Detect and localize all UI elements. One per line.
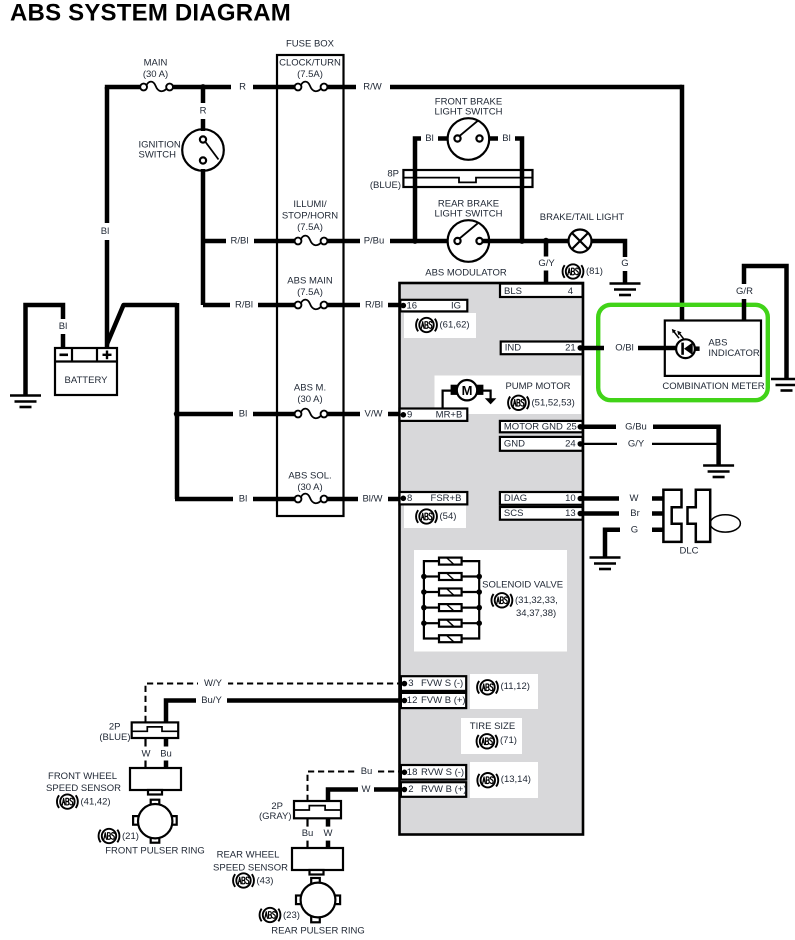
white patch IG annotation [404,313,476,338]
wire G/Bu motor gnd [583,427,719,465]
label gap G/Bu [616,420,653,434]
label G brake ground [618,257,632,271]
wire ignition switch lower to rows B and C [201,169,206,305]
svg-text:R/Bl: R/Bl [235,300,253,311]
ground battery [10,396,41,408]
svg-text:G/Y: G/Y [538,258,555,269]
svg-text:4: 4 [568,286,573,297]
svg-text:O/Bl: O/Bl [615,343,633,354]
svg-text:Bu/Y: Bu/Y [201,695,222,706]
pump motor [443,391,451,409]
rear wheel speed sensor box [292,848,343,870]
svg-text:GND: GND [504,438,525,449]
ABS icon (51,52,53) [508,396,529,410]
svg-text:RVW S (-): RVW S (-) [421,767,464,778]
junction dot BLS top [543,281,549,287]
pin box 9 MR+B [400,409,468,421]
pin box DIAG 10 [500,492,583,505]
wire battery feeder diagonal [107,305,177,344]
svg-text:(7.5A): (7.5A) [297,287,323,298]
junction dot row A / ignition [200,84,206,90]
svg-text:P/Bu: P/Bu [364,236,385,247]
wire rear switch output to lamp and ground [483,239,569,244]
ABS icon (31,32,33, 34,37,38) [491,593,512,607]
svg-text:FRONT WHEEL: FRONT WHEEL [48,771,117,782]
wire Bu dashed rear [308,772,401,802]
svg-text:Bl: Bl [101,226,109,237]
svg-text:LIGHT SWITCH: LIGHT SWITCH [435,208,503,219]
wire row E (Bl / Bl/W, y=499) [175,497,401,502]
pin box 3 FVW S (-) [401,676,466,691]
ABS icon (21) [99,829,120,843]
ground below G [590,558,621,570]
wire G from DLC to ground [605,530,663,557]
svg-text:W: W [630,493,639,504]
svg-text:(BLUE): (BLUE) [370,180,401,191]
wire Br to DLC [583,511,663,516]
svg-text:ABS M.: ABS M. [294,383,326,394]
pin box SCS 13 [500,507,583,520]
svg-text:(51,52,53): (51,52,53) [532,397,575,408]
svg-text:FSR+B: FSR+B [431,493,462,504]
svg-text:(31,32,33,: (31,32,33, [515,595,558,606]
ground brake/tail light [610,284,641,296]
svg-text:2P: 2P [109,722,121,733]
label gap O/Bl [604,341,638,355]
wire front brake switch right leg [483,139,522,242]
rear pulser ring [296,878,340,922]
wire ignition drop from row A [201,87,206,131]
connector 8P (BLUE) [403,170,532,187]
pin box MOTOR GND 25 [500,421,583,432]
LED abs indicator [695,346,700,351]
fuse CLOCK/TURN (7.5A) [295,82,328,92]
pin box 12 FVW B (+) [401,693,466,708]
svg-text:IND: IND [505,342,522,353]
svg-text:(23): (23) [283,910,300,921]
ground G/R right [771,379,795,391]
combination meter box [665,321,761,376]
pin box 8 FSR+B [400,492,468,504]
fuse ABS MAIN (7.5A) [295,300,328,310]
wire R/W vertical to combination meter [680,85,685,321]
wire row B (R/Bl / P/Bu, y=241) [203,239,453,244]
wire G/R from meter top [744,266,787,379]
label gap Bu rear [356,765,377,779]
pin box 2 RVW B (+) [401,782,466,797]
white patch pump motor [435,376,582,415]
battery [55,348,117,395]
ABS icon (41,42) [57,794,78,808]
svg-text:ABS SYSTEM DIAGRAM: ABS SYSTEM DIAGRAM [10,0,291,27]
svg-text:(GRAY): (GRAY) [259,811,292,822]
svg-text:3: 3 [408,678,413,689]
svg-text:(30 A): (30 A) [297,482,322,493]
LED light arrows [674,332,679,339]
fuse ABS M. (30A) [295,409,328,419]
junction dot BLS drop [543,238,549,244]
ignition switch [182,129,224,171]
svg-text:SOLENOID VALVE: SOLENOID VALVE [482,580,563,591]
label gap R/W row A [356,80,390,94]
svg-text:24: 24 [565,438,576,449]
svg-text:STOP/HORN: STOP/HORN [282,211,338,222]
label gap Bl/W row E [358,492,388,506]
label gap R/Bl row C right [360,298,388,312]
label gap G/Y [617,437,652,451]
svg-text:Bl: Bl [239,494,247,505]
svg-text:CLOCK/TURN: CLOCK/TURN [279,58,341,69]
svg-text:TIRE SIZE: TIRE SIZE [470,721,515,732]
svg-text:LIGHT SWITCH: LIGHT SWITCH [435,106,503,117]
label gap Bl row E [233,492,253,506]
svg-text:G: G [621,258,628,269]
wire BLS drop [544,241,549,285]
brake/tail light lamp [569,230,592,253]
svg-text:MR+B: MR+B [436,409,463,420]
svg-text:DIAG: DIAG [504,493,527,504]
connector 2P (BLUE) [132,722,179,738]
svg-text:COMBINATION METER: COMBINATION METER [662,381,764,392]
junction dot feeder/ABS M row [174,411,180,417]
svg-text:W: W [142,748,151,759]
DLC connector right half [688,490,711,542]
svg-text:G/Y: G/Y [628,438,645,449]
label G/Y BLS drop [537,257,556,271]
label gap Bl front switch left [421,132,438,146]
ABS icon (61,62) [416,318,437,332]
svg-text:12: 12 [407,695,418,706]
svg-text:ABS: ABS [708,338,727,349]
label gap Bl left trunk [98,223,113,240]
svg-text:R/Bl: R/Bl [365,300,383,311]
connector 2P (GRAY) [294,801,341,818]
front wheel speed sensor box [130,768,181,790]
svg-text:8: 8 [407,493,412,504]
label gap R row A [231,80,253,94]
junction dot P/Bu row / front-left leg [412,238,418,244]
label R ignition drop [196,103,210,119]
svg-text:BRAKE/TAIL LIGHT: BRAKE/TAIL LIGHT [540,212,625,223]
svg-text:BLS: BLS [504,286,522,297]
ABS icon (54) [416,509,437,523]
white patch FVW annotation [470,674,538,709]
svg-text:ABS MAIN: ABS MAIN [287,276,333,287]
svg-text:W: W [324,828,333,839]
svg-text:Bl: Bl [425,133,433,144]
junction dot lamp row / front-right leg [519,238,525,244]
fuse MAIN (30A) [140,82,173,92]
wire front brake switch left leg [415,139,454,242]
svg-text:(61,62): (61,62) [440,320,470,331]
svg-text:16: 16 [407,300,418,311]
fuse ILLUMI/STOP/HORN (7.5A) [295,236,328,246]
svg-text:INDICATOR: INDICATOR [708,348,760,359]
wire row A (R / R/W, y=87) [105,85,682,90]
svg-text:(BLUE): (BLUE) [99,732,130,743]
svg-text:(7.5A): (7.5A) [297,69,323,80]
svg-text:R/W: R/W [363,82,382,93]
svg-text:(71): (71) [500,735,517,746]
solenoid valve symbol [421,558,482,643]
ground right G/Bu G/Y [703,466,734,478]
svg-text:REAR WHEEL: REAR WHEEL [217,850,280,861]
pin box IND 21 [501,342,583,355]
svg-text:21: 21 [565,342,576,353]
svg-text:8P: 8P [387,168,399,179]
wire row C (R/Bl / R/Bl, y=305) [203,303,401,308]
pin box GND 24 [500,437,583,451]
svg-text:(21): (21) [122,831,139,842]
front brake light switch [448,118,490,160]
label gap P/Bu row B [360,234,390,248]
wire row D (Bl / V/W, y=414) [177,412,401,417]
wire battery minus to ground [26,305,64,395]
front pulser ring [133,800,177,843]
ABS icon (11,12) [477,680,498,694]
svg-text:SPEED SENSOR: SPEED SENSOR [46,783,121,794]
svg-text:G/R: G/R [736,286,753,297]
labels W Bu front [139,747,153,761]
svg-text:Bu: Bu [160,748,172,759]
svg-text:34,37,38): 34,37,38) [516,608,556,619]
white patch solenoid valve [414,550,567,652]
svg-text:9: 9 [407,409,412,420]
wire W rear sensor [326,818,331,848]
svg-text:13: 13 [565,508,576,519]
label gap Bu/Y [196,694,227,708]
svg-text:SPEED SENSOR: SPEED SENSOR [213,863,288,874]
ABS icon (23) [260,908,281,922]
wire O/Bl from IND to meter [583,346,681,351]
label Bl battery minus [56,319,70,334]
svg-text:Bu: Bu [302,828,314,839]
svg-text:RVW B (+): RVW B (+) [421,784,466,795]
label gap W rear [358,783,374,797]
label gap Bl row D [233,407,253,421]
green highlight combination meter [598,305,768,400]
svg-text:FVW S (-): FVW S (-) [421,678,463,689]
ABS modulator body [400,283,584,835]
label gap V/W row D [360,407,388,421]
fuse box outline [277,55,344,516]
svg-text:ABS SOL.: ABS SOL. [288,471,331,482]
svg-text:Br: Br [630,508,640,519]
ABS icon (43) [233,873,254,887]
svg-text:R: R [239,82,246,93]
svg-text:(41,42): (41,42) [81,797,111,808]
wire W front sensor [144,738,146,768]
DLC loop ellipse [710,515,740,532]
svg-text:SCS: SCS [504,508,524,519]
svg-text:PUMP MOTOR: PUMP MOTOR [505,381,570,392]
wire W to DLC [583,496,663,501]
svg-text:V/W: V/W [365,409,383,420]
ABS icon (13,14) [477,773,498,787]
pin box BLS 4 [500,284,583,297]
wire feeder vertical to ABS M / ABS SOL rows [175,303,180,499]
label gap R/Bl row B [226,234,254,248]
svg-text:Bl: Bl [239,409,247,420]
svg-text:(13,14): (13,14) [501,774,531,785]
svg-text:(30 A): (30 A) [143,69,168,80]
svg-text:W: W [362,784,371,795]
label gap R/Bl row C left [230,298,258,312]
svg-text:(54): (54) [440,511,457,522]
svg-text:25: 25 [566,421,577,432]
wire Bu front sensor [164,738,169,768]
svg-text:M: M [462,383,473,398]
svg-text:W/Y: W/Y [204,678,223,689]
DLC connector left half [663,490,681,542]
svg-text:(81): (81) [586,266,603,277]
wire Bu rear sensor [306,818,308,848]
wire W rear [328,790,400,802]
svg-text:DLC: DLC [679,546,698,557]
svg-text:G/Bu: G/Bu [625,421,647,432]
wire G/Y gnd 24 [583,443,717,445]
svg-text:MOTOR GND: MOTOR GND [504,421,563,432]
rear brake light switch [448,220,490,262]
svg-text:FVW B (+): FVW B (+) [421,695,466,706]
label gap Bl front switch right [498,132,515,146]
svg-text:Bl: Bl [59,321,67,332]
svg-text:SWITCH: SWITCH [139,150,177,161]
pin box 16 IG [400,300,467,312]
svg-text:(30 A): (30 A) [297,394,322,405]
svg-text:MAIN: MAIN [144,57,168,68]
svg-text:REAR PULSER RING: REAR PULSER RING [271,926,364,937]
svg-text:Bu: Bu [361,766,373,777]
svg-text:(11,12): (11,12) [501,681,530,692]
labels Bu W rear [300,827,315,841]
svg-text:G: G [631,524,638,535]
white patch RVW annotation [470,762,538,798]
label gap W/Y [198,677,228,691]
svg-text:BATTERY: BATTERY [65,375,109,386]
svg-text:R: R [200,106,207,117]
svg-text:18: 18 [407,767,418,778]
svg-text:Bl/W: Bl/W [362,494,382,505]
svg-text:ILLUMI/: ILLUMI/ [293,199,327,210]
wire Bu/Y front [166,701,400,723]
fuse ABS SOL. (30A) [295,494,328,504]
wire W/Y dashed front [146,684,401,723]
svg-text:R/Bl: R/Bl [231,236,249,247]
svg-text:ABS MODULATOR: ABS MODULATOR [425,268,507,279]
ABS icon (81) [563,264,584,278]
svg-text:10: 10 [565,493,576,504]
svg-text:(7.5A): (7.5A) [297,222,323,233]
white patch FSR annotation [404,505,466,528]
wire left trunk Bl (battery +) [105,87,110,348]
svg-text:FUSE BOX: FUSE BOX [286,39,335,50]
svg-text:Bl: Bl [502,133,510,144]
svg-text:2: 2 [408,784,413,795]
svg-text:(43): (43) [257,876,274,887]
label gap G/R [734,284,755,299]
svg-text:IG: IG [451,300,461,311]
pin box 18 RVW S (-) [401,765,466,780]
svg-text:FRONT PULSER RING: FRONT PULSER RING [105,846,205,857]
white patch tire size [461,718,522,754]
